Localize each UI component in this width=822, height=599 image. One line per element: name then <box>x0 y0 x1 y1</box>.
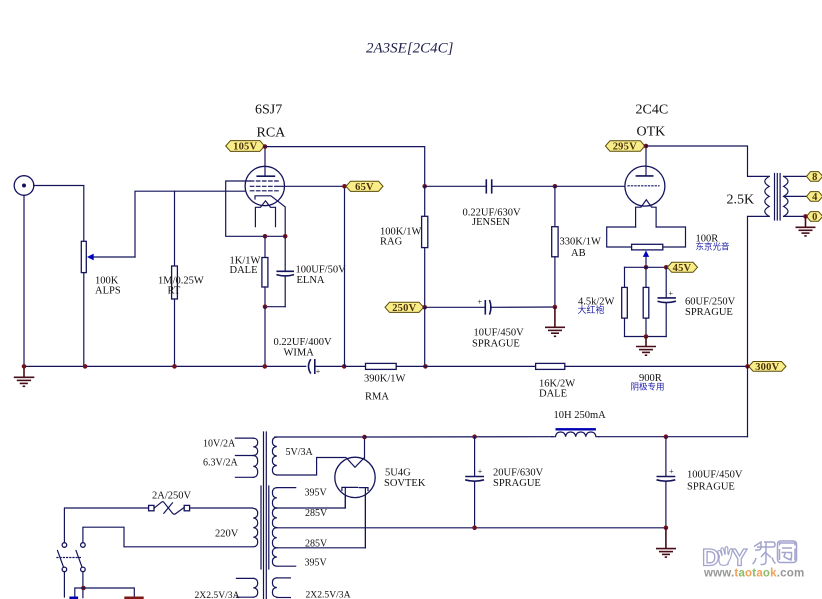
svg-text:+: + <box>669 289 674 298</box>
ground rail left segment <box>24 365 306 367</box>
winding HV 285V tap 1 <box>272 488 345 528</box>
node plate 105V junction <box>263 144 268 149</box>
wire screen drop 65V to rail <box>344 186 346 366</box>
svg-text:+: + <box>669 467 674 476</box>
svg-text:0.22UF/400V: 0.22UF/400V <box>274 337 332 348</box>
svg-text:5V/3A: 5V/3A <box>286 447 314 458</box>
tube 5U4G plate left <box>342 487 358 508</box>
svg-text:+: + <box>478 298 483 307</box>
svg-text:2A3SE[2C4C]: 2A3SE[2C4C] <box>366 41 454 57</box>
svg-text:东京光音: 东京光音 <box>696 242 731 252</box>
tube 2C4C filament <box>636 200 657 227</box>
svg-text:RAG: RAG <box>380 237 403 248</box>
wire grid line to 2C4C <box>555 185 626 187</box>
switch mechanical link dotted <box>57 557 82 559</box>
wire switch pole1 to mains <box>63 572 65 597</box>
switch DPST pole 2 <box>76 543 85 572</box>
node plate 295V junction <box>644 144 649 149</box>
wire pot bottom to rail <box>83 273 85 367</box>
svg-text:ELNA: ELNA <box>297 275 325 286</box>
wire switch pole1 to fuse <box>64 508 148 542</box>
wire switch pole2 to 220V winding bottom <box>83 527 253 547</box>
svg-text:2A/250V: 2A/250V <box>152 491 192 502</box>
capacitor 100UF/450V SPRAGUE <box>657 437 676 528</box>
winding HV 395V tap top <box>272 488 295 508</box>
INPUT-STAGE <box>14 41 454 387</box>
svg-text:5U4G: 5U4G <box>385 468 411 479</box>
node pot bottom junction <box>83 364 88 369</box>
wire jack to ground rail <box>23 195 25 366</box>
wire OPT primary bottom to 300V <box>748 216 770 366</box>
watermark char LE <box>753 542 776 565</box>
wire fuse to 220V winding top <box>190 507 253 509</box>
winding HV 285V tap 2 <box>272 488 365 566</box>
svg-text:100UF/450V: 100UF/450V <box>687 470 743 481</box>
mains terminal blue <box>69 597 78 599</box>
resistor 16K/2W DALE <box>536 363 748 369</box>
winding 5V/3A <box>272 437 364 475</box>
svg-text:SOVTEK: SOVTEK <box>384 478 426 489</box>
winding 10V/2A <box>235 438 257 455</box>
wire cathode RC to ground rail <box>264 307 266 367</box>
svg-text:60UF/250V: 60UF/250V <box>685 297 736 308</box>
tube 2C4C grid <box>628 185 659 187</box>
transformer OPT core <box>775 174 781 221</box>
svg-text:10H 250mA: 10H 250mA <box>554 410 607 421</box>
wire 250V down to rail <box>424 307 426 366</box>
capacitor 10UF/450V SPRAGUE <box>425 298 555 315</box>
wire g2 to 65V node <box>279 185 344 187</box>
capacitor 0.22UF/630V JENSEN <box>425 179 555 193</box>
svg-text:+: + <box>478 467 483 476</box>
resistor 1K/1W DALE <box>262 236 268 306</box>
svg-text:4: 4 <box>812 192 818 203</box>
winding 220V <box>253 508 257 546</box>
tube 6SJ7 plate <box>256 147 275 177</box>
watermark DIY logo <box>702 541 797 572</box>
node 45V junction <box>664 265 669 270</box>
wire rail WIMA to 390K <box>315 365 366 367</box>
svg-text:大红袍: 大红袍 <box>578 304 605 315</box>
svg-text:DALE: DALE <box>539 389 567 400</box>
OUTPUT-STAGE <box>578 103 822 373</box>
node cathode junction 2 <box>283 234 288 239</box>
resistor 100K/1W RAG <box>422 186 428 307</box>
node cathode RC bottom junction <box>263 304 268 309</box>
input jack J1 <box>14 176 34 196</box>
node 65V junction <box>342 184 347 189</box>
flag 0 <box>807 212 822 223</box>
svg-text:285V: 285V <box>305 539 328 550</box>
svg-text:2X2.5V/3A: 2X2.5V/3A <box>195 590 240 599</box>
svg-text:RT: RT <box>168 286 181 297</box>
node cathode ground junction <box>644 334 649 339</box>
node 300V junction <box>745 364 750 369</box>
node ground junction 330K <box>553 305 558 310</box>
ground symbol at input <box>14 366 35 386</box>
wire g3 to cathode box <box>226 181 286 236</box>
wire secondary tap 8 <box>784 175 807 177</box>
svg-text:1M/0.25W: 1M/0.25W <box>158 276 204 287</box>
node 250V junction <box>422 305 427 310</box>
winding HV 395V tap bottom <box>277 565 296 567</box>
svg-text:45V: 45V <box>673 263 692 274</box>
svg-text:100UF/50V: 100UF/50V <box>296 265 347 276</box>
tube 2C4C envelope <box>625 166 665 206</box>
wire B+ rail top <box>365 436 553 438</box>
flag 8 <box>807 172 822 183</box>
capacitor 100UF/50V ELNA <box>265 236 294 306</box>
potentiometer 100K ALPS <box>81 241 135 272</box>
svg-text:390K/1W: 390K/1W <box>364 374 406 385</box>
wire choke to 100UF junction <box>599 436 748 438</box>
flag 250V <box>385 302 424 314</box>
svg-text:阴极专用: 阴极专用 <box>631 382 665 392</box>
wire mains link <box>75 588 135 598</box>
capacitor 60UF/250V SPRAGUE <box>658 267 676 336</box>
svg-text:285V: 285V <box>305 508 328 519</box>
svg-text:2C4C: 2C4C <box>636 103 669 118</box>
svg-text:ALPS: ALPS <box>95 286 121 297</box>
mains terminal red <box>124 597 143 599</box>
flag 300V <box>749 362 786 373</box>
ground symbol at 2C4C cathode <box>636 337 656 356</box>
svg-text:10V/2A: 10V/2A <box>203 439 236 450</box>
tube 6SJ7 grid g1 control <box>250 190 279 192</box>
node 1M bottom junction <box>172 364 177 369</box>
svg-text:0: 0 <box>812 212 817 223</box>
node rail junction at cathode drop <box>263 364 268 369</box>
node ground rail junction at jack <box>22 364 27 369</box>
svg-text:395V: 395V <box>305 558 328 569</box>
svg-text:6.3V/2A: 6.3V/2A <box>203 458 239 469</box>
svg-text:6SJ7: 6SJ7 <box>255 103 282 118</box>
tube 6SJ7 envelope <box>245 166 284 205</box>
DRIVER-COUPLING <box>226 141 748 403</box>
tube 5U4G plate right <box>359 488 368 548</box>
tube 6SJ7 cathode <box>255 196 285 237</box>
flag 295V <box>605 141 644 153</box>
svg-text:+: + <box>316 367 321 376</box>
wire filament box to hum pot <box>607 227 686 247</box>
transformer OPT secondary <box>784 176 788 216</box>
svg-text:OTK: OTK <box>637 125 666 140</box>
node mains junction <box>81 586 86 591</box>
ground symbol at OPT secondary <box>796 216 816 236</box>
fuse 2A/250V <box>149 502 190 515</box>
node 100UF top junction <box>664 434 669 439</box>
wire jack to pot top <box>34 186 84 242</box>
wire secondary tap 0 <box>784 215 806 217</box>
svg-text:20UF/630V: 20UF/630V <box>493 468 544 479</box>
wire plate line 105V to coupling corner <box>265 147 425 187</box>
svg-text:105V: 105V <box>233 142 257 153</box>
resistor 390K/1W RMA <box>366 363 536 369</box>
svg-text:SPRAGUE: SPRAGUE <box>687 482 735 493</box>
ground symbol PSU <box>656 528 676 557</box>
svg-text:300V: 300V <box>755 362 779 373</box>
svg-text:2.5K: 2.5K <box>727 193 755 208</box>
tube 5U4G envelope <box>335 457 375 497</box>
svg-text:395V: 395V <box>305 488 328 499</box>
svg-text:www.taotaok.com: www.taotaok.com <box>703 568 804 580</box>
winding HV center tap <box>272 528 666 548</box>
svg-text:SPRAGUE: SPRAGUE <box>493 478 541 489</box>
svg-text:330K/1W: 330K/1W <box>560 237 602 248</box>
node 20UF bottom junction <box>472 526 477 531</box>
capacitor 20UF/630V SPRAGUE <box>465 437 484 528</box>
wire filament right to B+ node <box>364 437 366 458</box>
svg-text:10UF/450V: 10UF/450V <box>474 328 525 339</box>
node rail junction at 250V drop <box>423 364 428 369</box>
wire B+ riser to 300V <box>747 366 749 436</box>
svg-text:RMA: RMA <box>365 392 389 403</box>
svg-text:250V: 250V <box>392 303 416 314</box>
flag 105V <box>226 141 265 153</box>
node B+ junction at 5U4G <box>362 435 367 440</box>
svg-text:AB: AB <box>571 248 586 259</box>
resistor 4.5k/2W number 1 <box>622 267 628 336</box>
ground symbol at 330K <box>545 307 565 336</box>
tube 5U4G filament <box>347 458 365 467</box>
POWER-SUPPLY <box>57 366 748 599</box>
node rail junction screen drop <box>342 364 347 369</box>
switch DPST pole 1 <box>58 543 67 572</box>
svg-text:8: 8 <box>812 172 817 183</box>
node secondary 0 junction <box>803 214 808 219</box>
watermark hand icon <box>718 547 733 566</box>
choke 10H 250mA <box>552 428 599 437</box>
tube 2C4C plate <box>636 146 654 176</box>
watermark char YUAN <box>778 541 797 563</box>
potentiometer 100R hum balance <box>632 244 663 267</box>
node wiper junction <box>644 265 649 270</box>
node PSU ground junction <box>664 526 669 531</box>
transformer OPT 2.5K primary <box>765 176 769 216</box>
winding 2X2.5V/3A left <box>236 578 257 597</box>
svg-text:SPRAGUE: SPRAGUE <box>685 307 733 318</box>
tube 6SJ7 heater <box>255 201 275 227</box>
svg-text:2X2.5V/3A: 2X2.5V/3A <box>306 590 351 599</box>
WATERMARK <box>702 541 804 580</box>
tube 6SJ7 grid g3 suppressor <box>250 180 279 182</box>
wire 295V to OPT primary top <box>646 146 769 176</box>
node cathode junction 1 <box>263 234 268 239</box>
node 20UF top junction <box>472 434 477 439</box>
resistor 330K/1W AB <box>552 186 558 307</box>
node coupling tee junction <box>422 184 427 189</box>
svg-text:RCA: RCA <box>257 126 287 141</box>
wire cathode node horizontal <box>625 266 667 268</box>
node grid junction 2C4C <box>553 184 558 189</box>
svg-text:JENSEN: JENSEN <box>472 217 510 228</box>
svg-text:WIMA: WIMA <box>284 348 315 359</box>
svg-text:220V: 220V <box>215 529 239 540</box>
wire switch pole2 to mains junction <box>82 572 84 598</box>
svg-text:295V: 295V <box>613 142 637 153</box>
winding 2X2.5V/3A right <box>272 578 290 598</box>
wire secondary tap 4 <box>784 195 807 197</box>
winding 6.3V/2A <box>235 456 257 478</box>
tube 6SJ7 grid g2 screen <box>250 185 279 187</box>
transformer PT core <box>261 432 269 599</box>
resistor 1M/0.25W RT <box>172 191 178 366</box>
svg-text:SPRAGUE: SPRAGUE <box>472 339 520 350</box>
flag 65V <box>346 181 383 193</box>
flag 45V <box>667 262 697 274</box>
resistor 4.5k/2W number 2 <box>643 267 649 336</box>
svg-text:DALE: DALE <box>230 265 258 276</box>
wire cathode bottom rail <box>625 336 667 338</box>
wire wiper up to grid line <box>135 191 246 257</box>
svg-text:65V: 65V <box>355 182 374 193</box>
flag 4 <box>807 192 822 203</box>
capacitor 0.22UF/400V WIMA <box>309 359 321 376</box>
